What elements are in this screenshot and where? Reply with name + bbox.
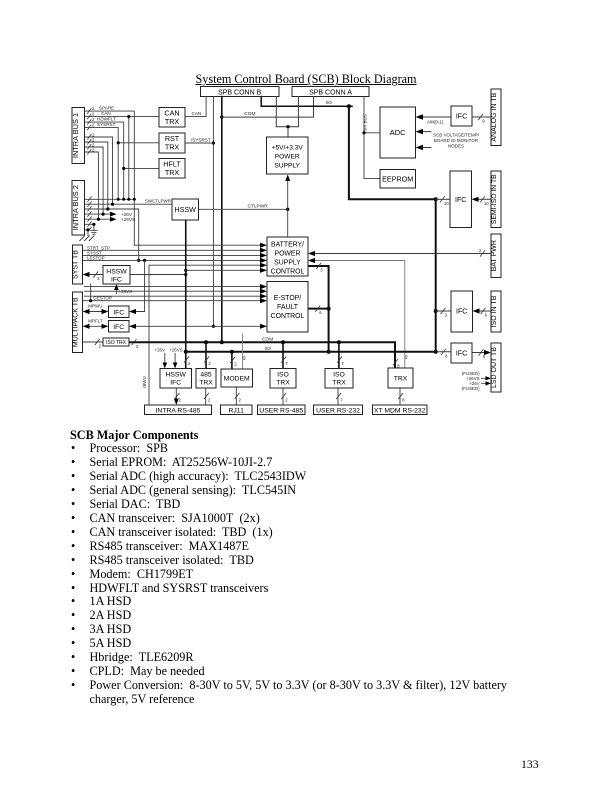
svg-text:BAT PWR: BAT PWR (491, 240, 498, 271)
svg-text:INTRA RS-485: INTRA RS-485 (156, 408, 201, 415)
intra bus 2 wire 1 (85, 198, 136, 201)
ground symbol earth hatches (80, 236, 94, 241)
svg-text:6: 6 (485, 313, 488, 318)
EEPROM (380, 170, 416, 189)
svg-text:3: 3 (136, 344, 139, 349)
svg-text:8: 8 (402, 398, 405, 403)
svg-text:+26VS: +26VS (119, 289, 133, 294)
svg-text:7: 7 (285, 361, 288, 366)
wire power supply bracket from CONN B and CONN A (276, 97, 298, 138)
intra bus 1 wire CAN to CAN TRX (85, 111, 160, 199)
wire ISO TRX1 to USER RS-485 slash 2 (282, 388, 289, 405)
svg-text:2: 2 (179, 398, 182, 403)
wire 485 TRX to INTRA RS-485 slash 2 (204, 388, 211, 405)
svg-text:SPARE: SPARE (99, 106, 114, 111)
svg-text:ISO: ISO (277, 372, 289, 379)
svg-text:XT MDM RS-232: XT MDM RS-232 (374, 408, 426, 415)
wire MPFLT to E-STOP e5 (129, 324, 267, 329)
wire ISO TRX left to MULTIPACK with slash 2 (83, 339, 104, 348)
wire ISO TRX2 to USER RS-232 slash 7 (337, 388, 344, 405)
connector USER RS-485 (258, 405, 306, 415)
transceiver ISO TRX 2 (325, 369, 353, 389)
wire HSSW box vertical down to I/O bus (184, 220, 188, 354)
svg-text:8: 8 (445, 353, 448, 358)
svg-text:6: 6 (319, 310, 322, 315)
wire e-stop output slash 6 thick (308, 306, 329, 315)
MODEM (221, 369, 253, 387)
svg-text:ISO IN TB: ISO IN TB (491, 295, 498, 327)
svg-text:8: 8 (483, 354, 486, 359)
svg-text:7: 7 (341, 361, 344, 366)
wire estop e3 (85, 294, 268, 299)
intra bus 2 wire 3 routed down (85, 207, 141, 262)
wire /SYSRST branch to RST TRX (185, 137, 213, 143)
terminal LSD OUT TB (491, 343, 501, 392)
svg-text:2: 2 (97, 276, 100, 281)
connector SPB CONN B (201, 87, 280, 97)
svg-text:INTRA BUS 2: INTRA BUS 2 (71, 185, 80, 230)
wire estop e1 (85, 284, 268, 289)
svg-text:CONTROL: CONTROL (271, 269, 305, 276)
svg-text:I/O: I/O (265, 346, 272, 352)
connector USER RS-232 (314, 405, 363, 415)
svg-text:ISO: ISO (333, 372, 345, 379)
svg-text:COM: COM (262, 336, 273, 342)
svg-text:RJ11: RJ11 (229, 408, 245, 415)
wire MODEM RI thin feed (241, 334, 246, 369)
svg-text:+26VS: +26VS (169, 348, 182, 353)
svg-text:10: 10 (484, 201, 489, 206)
svg-text:SYSRST: SYSRST (97, 122, 116, 127)
wire I/O thick to semi-iso row (349, 106, 438, 201)
IFC analog (451, 106, 472, 126)
wire battery output slash 3 thick (308, 263, 331, 354)
wire TRX to XT MDM RS-232 slash 8 (399, 388, 406, 405)
wire +26VS up arrow into HSSW IFC (114, 284, 132, 294)
wire MODEM to RJ11 slash 2 (235, 387, 242, 405)
svg-text:2: 2 (479, 248, 482, 253)
wire HSSW IFC bottom feed slash 2 (184, 352, 191, 369)
COM bus thick (129, 336, 395, 368)
svg-text:INTRA BUS 1: INTRA BUS 1 (71, 113, 80, 158)
svg-text:POWER: POWER (275, 154, 300, 161)
transceiver CAN TRX (159, 108, 185, 128)
svg-text:BATTERY/: BATTERY/ (271, 242, 304, 249)
wire I/O upper (261, 97, 352, 109)
svg-text:7: 7 (340, 398, 343, 403)
wire battery a6 from HSSW vertical (184, 268, 267, 273)
svg-text:TRX: TRX (332, 380, 346, 387)
wire COM vertical from CONN B to COM bus (220, 97, 224, 345)
svg-text:LESTOP: LESTOP (87, 255, 105, 260)
svg-text:SUPPLY: SUPPLY (274, 260, 301, 267)
wire iso-in IFC right from TB with slash 6 (473, 308, 492, 317)
svg-text:+5V/+3.3V: +5V/+3.3V (272, 145, 304, 152)
svg-text:FAULT: FAULT (277, 304, 299, 311)
svg-text:CAN: CAN (192, 111, 202, 116)
COM bus junction dots (204, 340, 341, 344)
svg-text:EEPROM: EEPROM (382, 175, 413, 184)
wire battery a5 from IBWU vertical (149, 263, 267, 268)
svg-text:HSSW: HSSW (174, 205, 196, 214)
labels FUSED 26VS 26V FUSED with arrows into LSD OUT TB (462, 371, 491, 391)
intra bus 1 wire HDWFLT (85, 117, 160, 200)
svg-text:10: 10 (444, 201, 449, 206)
control BATTERY POWER SUPPLY CONTROL (267, 237, 308, 276)
IFC semi-iso (450, 171, 472, 228)
svg-text:2: 2 (188, 361, 191, 366)
wire estop e2 (85, 289, 268, 294)
svg-text:TRX: TRX (165, 143, 180, 152)
transceiver RST TRX (159, 133, 185, 153)
wire SYSST a3 (83, 251, 268, 259)
wire GESTOP e4 (83, 284, 268, 303)
ADC monitor stub arrows (416, 129, 431, 151)
terminal ISO IN TB (491, 291, 501, 332)
svg-text:2: 2 (99, 344, 102, 349)
intra bus 1 (71, 108, 84, 164)
I/O bus junction dot modem (230, 350, 234, 354)
wire battery right to BAT PWR TB slash 2 (308, 248, 491, 256)
svg-text:3: 3 (320, 268, 323, 273)
wire MPWU with arrows (83, 304, 109, 315)
wire MODEM feed from I/O slash 2 (230, 352, 237, 369)
svg-text:CONTROL: CONTROL (271, 313, 305, 320)
intra bus 2 wire SWCTLPWR to HSSW (85, 199, 173, 206)
svg-text:CTLPWR: CTLPWR (248, 204, 269, 210)
wire ISO TRX2 feed from COM slash 7 (337, 342, 344, 368)
wire analog IFC to TB (472, 116, 491, 118)
svg-text:USER RS-485: USER RS-485 (259, 408, 303, 415)
svg-text:NODES: NODES (448, 144, 464, 149)
intra bus 2 (71, 181, 84, 235)
svg-text:CAN: CAN (101, 111, 111, 116)
terminal BAT PWR (491, 234, 501, 278)
svg-text:3: 3 (208, 361, 211, 366)
intra bus 1 wire SPARE (85, 106, 135, 246)
connector RJ11 (221, 405, 253, 415)
wire COM upper (222, 97, 314, 118)
wire power supply feed up arrow from battery control (285, 175, 290, 237)
svg-text:IFC: IFC (456, 351, 467, 358)
svg-text:/SYSRST: /SYSRST (191, 137, 211, 142)
svg-text:AIN[0:1]: AIN[0:1] (427, 119, 443, 124)
svg-text:POWER: POWER (274, 251, 300, 258)
svg-text:SWCTLPWR: SWCTLPWR (145, 199, 172, 204)
svg-text:3: 3 (445, 313, 448, 318)
svg-text:2: 2 (92, 106, 95, 111)
wire semi-iso IFC right from TB with slash 10 (472, 197, 492, 206)
svg-text:IFC: IFC (170, 380, 181, 387)
intra bus 2 wire +26VS arrow (85, 217, 136, 223)
svg-text:HSSW: HSSW (165, 372, 186, 379)
svg-text:MODEM: MODEM (224, 376, 250, 383)
component list (70, 429, 510, 707)
svg-text:USER RS-232: USER RS-232 (316, 408, 360, 415)
svg-text:TRX: TRX (165, 168, 180, 177)
transceiver TRX xt (388, 368, 413, 388)
power supply +5V/+3.3V (267, 137, 309, 174)
terminal SEMI-ISO IN TB (491, 171, 501, 228)
wire +26V +26VS down arrows into HSSW IFC bottom box (155, 348, 183, 369)
intra bus 2 wire 7 to earth ground (85, 228, 90, 235)
ADC (380, 107, 416, 158)
svg-text:BOARD ID MONITOR: BOARD ID MONITOR (434, 138, 479, 143)
connector XT MDM RS-232 (373, 405, 428, 415)
wire battery right 2 to TRX thin (308, 258, 409, 368)
intra bus 1 wire SYSRST to RST TRX (85, 122, 160, 199)
svg-text:2: 2 (92, 111, 95, 116)
svg-text:SPB CONN B: SPB CONN B (218, 90, 262, 97)
svg-text:+26V: +26V (155, 348, 165, 353)
intra bus 2 wire slashes (88, 197, 92, 232)
transceiver ISO TRX 1 (270, 369, 296, 389)
svg-text:HDWFLT: HDWFLT (97, 117, 116, 122)
svg-text:RI: RI (404, 355, 409, 359)
svg-text:2: 2 (92, 122, 95, 127)
wire MPFLT with arrows (83, 318, 109, 329)
svg-text:9: 9 (482, 119, 485, 124)
wire semi-iso IFC left with slash 10 (436, 197, 450, 206)
wire vertical to MPWU ifc (129, 260, 145, 314)
page number (521, 757, 561, 772)
wire HSSW IFC right to HSSW vertical (130, 273, 187, 276)
IFC lsd-out (451, 343, 472, 363)
svg-text:RI: RI (241, 356, 246, 360)
svg-text:2: 2 (208, 398, 211, 403)
svg-text:2: 2 (285, 398, 288, 403)
transceiver 485 TRX (196, 369, 216, 389)
connector SPB CONN A (292, 87, 369, 97)
svg-text:SEMI-ISO IN TB: SEMI-ISO IN TB (491, 174, 498, 224)
wire ISO TRX1 feed from COM slash 7 (282, 342, 289, 368)
wire battery arrow a1 from SPARE (134, 243, 267, 248)
svg-text:TRX: TRX (199, 380, 213, 387)
intra bus 1 group B wires nested (85, 132, 113, 219)
svg-text:IFC: IFC (113, 310, 124, 317)
control E-STOP FAULT CONTROL (267, 282, 308, 333)
svg-text:+26VS: +26VS (121, 217, 135, 222)
wire CTLPWR from HSSW to power supply vertical (199, 204, 290, 211)
svg-text:TRX: TRX (276, 380, 290, 387)
svg-text:SPI BUS: SPI BUS (363, 114, 368, 131)
terminal MULTIPACK TB (73, 292, 83, 353)
svg-text:IFC: IFC (455, 197, 466, 204)
svg-text:ADC: ADC (390, 128, 406, 137)
wire STRT_STP label and a2 (83, 245, 268, 253)
interface IFC mpflt (109, 321, 130, 333)
wire lsd IFC right to TB with slash 8 (472, 350, 491, 359)
svg-text:2: 2 (234, 362, 237, 367)
svg-text:GESTOP: GESTOP (93, 296, 112, 301)
wire iso-in IFC left with slash 3 (436, 308, 451, 317)
IFC iso-in (451, 291, 473, 332)
wire 485 TRX feed from COM slash 3 (205, 342, 212, 368)
svg-text:(FUSED): (FUSED) (462, 386, 480, 391)
svg-text:SUPPLY: SUPPLY (274, 163, 300, 170)
svg-text:TRX: TRX (394, 376, 408, 383)
svg-text:ISO TRX: ISO TRX (106, 340, 127, 346)
I/O bus thick (186, 346, 436, 352)
svg-text:SYST TB: SYST TB (73, 250, 80, 279)
svg-text:ANALOG IN TB: ANALOG IN TB (491, 92, 498, 141)
svg-text:2: 2 (92, 117, 95, 122)
wire /SYSRST vertical from CONN B (212, 97, 215, 328)
wire LESTOP a4 (83, 255, 268, 263)
interface HSSW IFC syst (103, 266, 130, 285)
intra bus 2 wire ground (85, 223, 96, 230)
connector INTRA RS-485 (145, 405, 212, 415)
terminal SYST TB (73, 245, 83, 284)
transceiver HFLT TRX (159, 159, 185, 179)
terminal ANALOG IN TB (491, 89, 501, 146)
wire ADC to analog IFC with arrow and AIN label (416, 114, 486, 124)
wire HSSW IFC left arrow to SYST TB slash 2 (83, 272, 104, 281)
transceiver ISO TRX multipack (103, 338, 129, 346)
svg-text:SCB VOLTAGE/TEMP/: SCB VOLTAGE/TEMP/ (433, 133, 480, 138)
svg-text:HSSW: HSSW (106, 269, 127, 276)
svg-text:IFC: IFC (456, 114, 467, 121)
interface HSSW IFC bottom (160, 369, 192, 389)
intra bus 2 wire +26V arrow (85, 212, 133, 218)
svg-text:IFC: IFC (456, 309, 467, 316)
svg-text:IFC: IFC (111, 277, 122, 284)
interface IFC mpwu (109, 306, 130, 318)
wire IBWU vertical to INTRA RS-485 (142, 265, 149, 405)
svg-text:MPWU: MPWU (88, 304, 102, 309)
svg-text:485: 485 (200, 372, 212, 379)
svg-text:MPFLT: MPFLT (88, 318, 103, 323)
label SCB VOLTAGE TEMP BOARD ID MONITOR NODES (433, 133, 480, 149)
svg-text:LSD OUT TB: LSD OUT TB (491, 347, 498, 388)
wire lsd IFC left from I/O bus with slash 8 (436, 349, 451, 358)
ground symbol bar type (91, 231, 98, 235)
wire TRX feed from COM slash 8 (394, 359, 401, 368)
svg-text:IBWU: IBWU (142, 376, 147, 387)
svg-text:IFC: IFC (113, 324, 124, 331)
svg-text:MULTIPACK TB: MULTIPACK TB (73, 297, 80, 347)
wire SPI BUS from CONN A to ADC and EEPROM (362, 97, 380, 179)
switch HSSW (172, 199, 199, 220)
svg-text:2: 2 (239, 398, 242, 403)
svg-text:SPB CONN A: SPB CONN A (309, 90, 352, 97)
svg-text:TRX: TRX (165, 117, 180, 126)
svg-text:E-STOP/: E-STOP/ (274, 295, 302, 302)
svg-text:I/O: I/O (326, 100, 333, 106)
wire right column vertical (434, 199, 438, 353)
title (0, 72, 612, 87)
svg-text:COM: COM (244, 111, 255, 117)
wire HSSW IFC to INTRA RS-485 down arrow slash 2 (174, 388, 182, 405)
wire CAN from CONN B to CAN TRX (185, 97, 206, 117)
